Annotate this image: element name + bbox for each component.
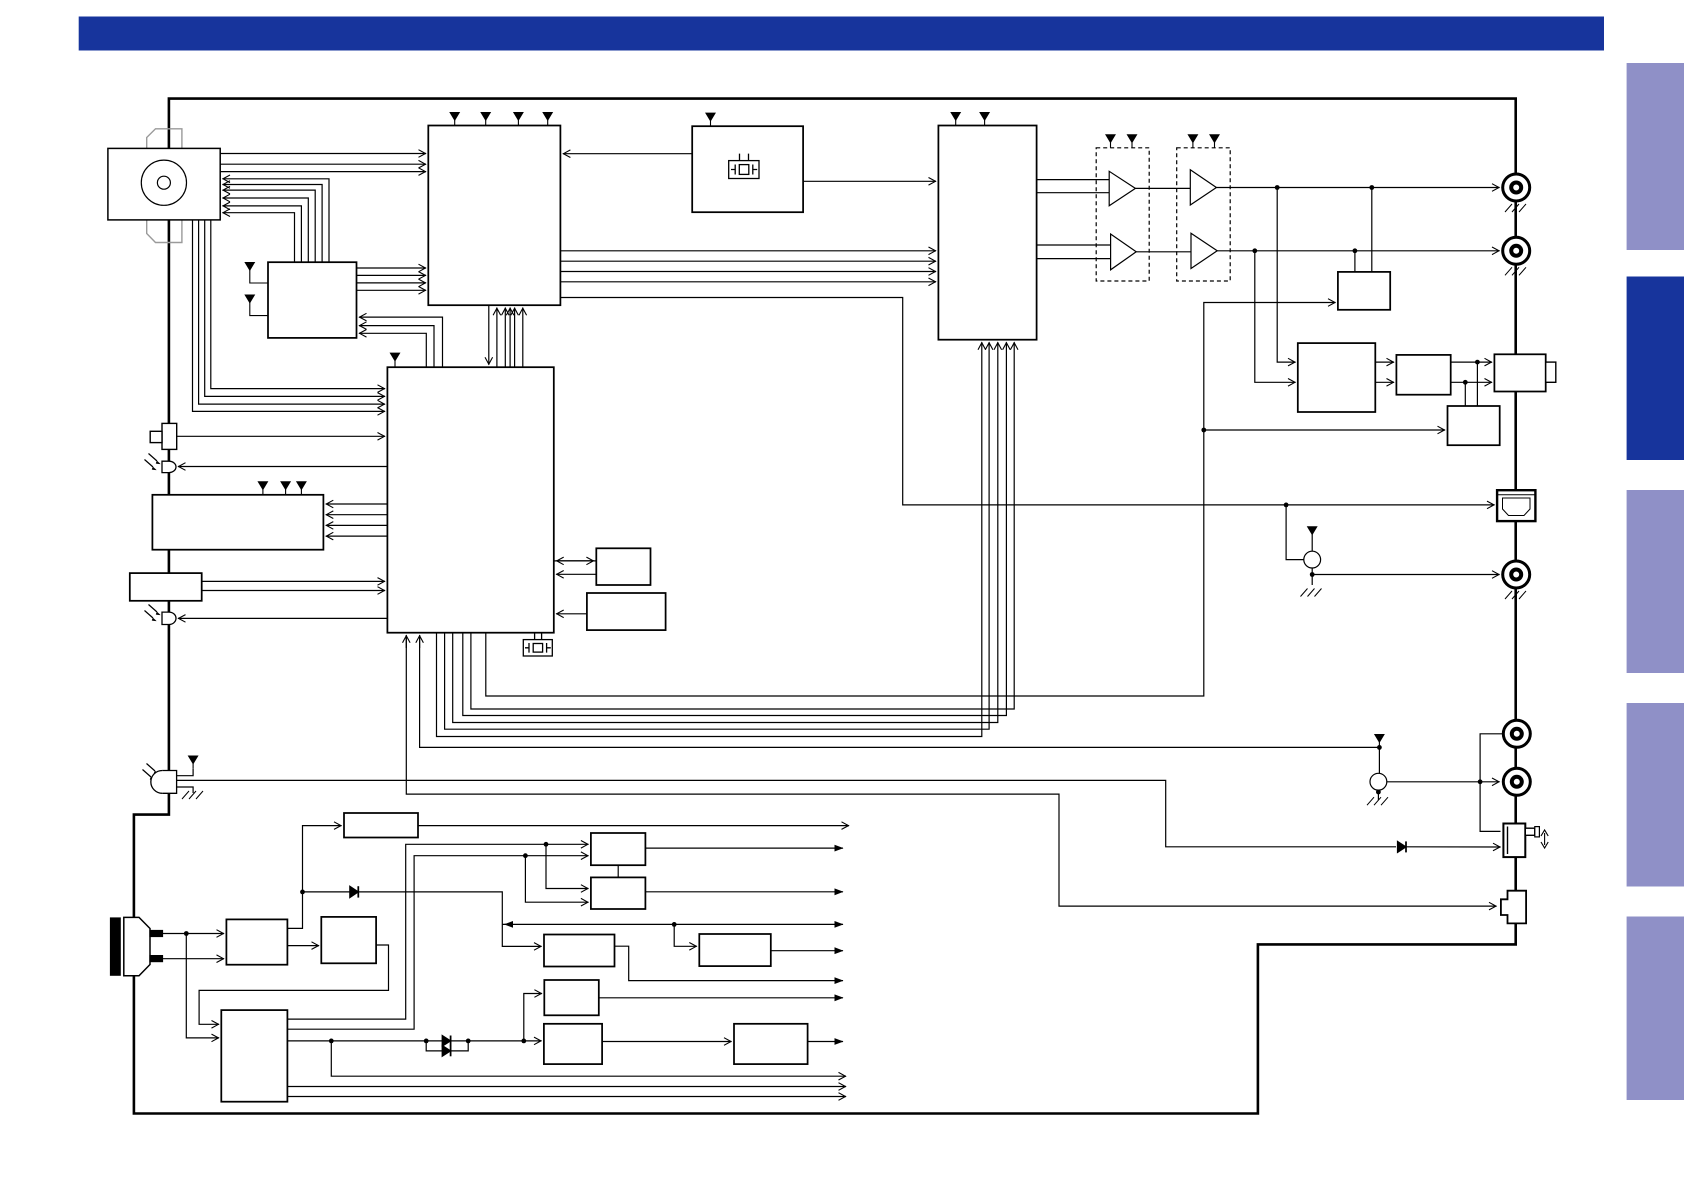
wire A2 to A4	[1136, 251, 1191, 253]
wire U5 to drum 2	[223, 185, 323, 263]
AC plug body	[124, 917, 150, 975]
wire P3 riser rail1	[287, 844, 588, 1019]
wire branch to block D	[1204, 429, 1445, 431]
head drum block	[108, 148, 220, 220]
ground hatch J3	[1505, 591, 1526, 599]
diode D1	[350, 886, 359, 897]
wire U1 to U2 1	[560, 250, 936, 252]
wire U5 to drum 1	[223, 179, 330, 262]
board outline	[134, 99, 1516, 1114]
wire U1-U4 bus 4	[509, 308, 511, 368]
wire supply to driver Q2	[1378, 747, 1380, 773]
Q2 emitter line	[1377, 790, 1379, 800]
block BH	[544, 935, 615, 967]
wire U3 to U2	[803, 180, 936, 182]
wire diode pair bypass	[426, 1041, 442, 1051]
wire rail branch to BG	[674, 924, 697, 946]
diode D2b	[442, 1046, 450, 1057]
supply arrow IR	[189, 756, 198, 764]
wire drum motor to U4 1	[193, 220, 386, 412]
wire U4 to photo sensor 1	[178, 466, 387, 468]
wire block A to B 1	[1375, 361, 1394, 363]
wire mic to U4 2	[202, 590, 385, 592]
memory block K1	[596, 548, 650, 585]
wire U4-U2 bus 5	[471, 342, 1014, 709]
block BM1	[591, 833, 646, 865]
wire U4 out to audio driver supply	[420, 635, 1380, 747]
power block P2	[321, 917, 376, 963]
wire U4 to display 2	[326, 514, 388, 516]
wire rail1 branch to BM2	[546, 844, 588, 888]
wire regulator out	[418, 825, 849, 827]
IR supply stub	[177, 769, 194, 776]
wire BM1-BM2 link	[617, 865, 619, 877]
photo sensor PS2	[162, 612, 176, 624]
reset block K2	[587, 593, 666, 630]
wire BH out	[615, 946, 844, 980]
wire U1-U4 bus 2	[496, 308, 498, 368]
wire drum to U1 head 2	[220, 163, 426, 165]
wire rail arrowhead left	[505, 923, 513, 925]
photo sensor PS1	[162, 461, 176, 472]
block BI	[544, 980, 599, 1015]
side tab 5	[1627, 917, 1684, 1101]
wire BM2 out	[645, 891, 843, 893]
supply arrow U1-3	[514, 113, 523, 121]
wire after diode down	[357, 892, 542, 947]
wire BF out	[808, 1041, 843, 1043]
power block P1	[226, 919, 287, 964]
wire audio L to block M	[1371, 188, 1373, 272]
block BG	[699, 934, 771, 966]
drum inner circle	[157, 176, 170, 189]
buffer amp A1	[1109, 171, 1135, 206]
wire U1 to U2 3	[560, 271, 936, 273]
audio block A	[1298, 343, 1376, 412]
wire block B to C 1	[1451, 361, 1492, 363]
wire block B to C 2	[1451, 381, 1492, 383]
Q1 emitter line	[1311, 568, 1313, 585]
syscon/servo IC U4	[387, 367, 553, 633]
mic/jack block	[130, 573, 202, 601]
wire U2 audio out 1b	[1037, 192, 1110, 194]
wire IR sensor line	[177, 780, 1396, 846]
wire unreg rail right	[502, 923, 843, 925]
wire audio R to block M	[1354, 251, 1356, 272]
wire U1-U4 bus 5	[514, 308, 516, 368]
block BM2	[591, 877, 646, 909]
wire U5 to drum 6	[223, 213, 295, 263]
wire audio R to block A in2	[1255, 251, 1296, 382]
wire U1 to U2 4	[560, 281, 936, 283]
buffer amp A4	[1191, 233, 1217, 268]
wire U1-U4 bus 3	[504, 308, 506, 368]
wire BI out	[599, 997, 843, 999]
cassette switch	[150, 423, 177, 449]
wire P3 diode pair line	[287, 1040, 442, 1042]
wire Q1 to video jack J3	[1312, 574, 1499, 576]
dashed buffer box 1	[1096, 148, 1149, 281]
audio driver Q2	[1370, 773, 1387, 790]
supply arrow display 3	[297, 482, 306, 490]
side tab 4	[1627, 703, 1684, 887]
wire U5 to drum 3	[223, 190, 316, 262]
wire U4-U2 bus 4	[463, 342, 1007, 715]
supply arrow display 1	[258, 482, 267, 490]
wire BE to BF	[602, 1041, 731, 1043]
block D	[1448, 406, 1500, 445]
drum bracket (grey)	[147, 129, 182, 243]
wire U2 audio out 1a	[1037, 179, 1110, 181]
wire P3 out bus2	[287, 1086, 846, 1088]
wire drum motor to U4 2	[199, 220, 385, 404]
S-video connector	[1497, 490, 1535, 521]
block B	[1396, 355, 1450, 395]
wire cassette switch to U4	[177, 435, 385, 437]
wire U5 to drum 4	[223, 198, 309, 262]
buffer amp A3	[1190, 170, 1216, 205]
audio/video IC U2	[938, 126, 1036, 340]
jack J5	[1503, 768, 1530, 795]
drum circle	[141, 160, 186, 205]
wire drum to U1 head 1	[220, 153, 426, 155]
wire U4-U2 bus 1	[437, 342, 982, 736]
IR ground stub	[177, 787, 194, 793]
wire diode pair bypass return	[451, 1041, 469, 1051]
video out jack J3	[1503, 561, 1530, 588]
supply arrow audio driver	[1375, 735, 1384, 743]
audio out jack J1	[1503, 174, 1530, 201]
lightning IR	[143, 764, 156, 778]
wire drum to U1 head 3	[220, 171, 426, 173]
wire U4-K1 bidir arrow right	[554, 560, 594, 562]
wire mic to U4 1	[202, 580, 385, 582]
supply arrow U2-1	[951, 113, 960, 121]
block C on edge	[1494, 354, 1545, 391]
wire U1 video out to S-video	[560, 298, 1494, 505]
block C tab	[1546, 362, 1556, 382]
AC plug prong 1	[150, 931, 163, 937]
wire diode pair to BE	[451, 1040, 542, 1042]
wire bracket J4/RF	[1480, 734, 1503, 832]
ground hatch J1	[1505, 204, 1526, 212]
supply arrow U4	[391, 353, 400, 361]
supply arrow Q1	[1308, 527, 1317, 551]
wire U1-U4 bus 6	[522, 308, 524, 368]
side tab 1	[1627, 63, 1684, 250]
IR LED sensor	[151, 771, 177, 794]
wire drum motor to U4 4	[211, 220, 385, 389]
wire U4 to display 4	[326, 535, 388, 537]
wire K2 to U4	[556, 613, 587, 615]
audio out jack J2	[1503, 237, 1530, 264]
wire Q2 to audio jack J5	[1387, 781, 1500, 783]
AC plug black bar	[111, 918, 121, 975]
wire P3 out bus3	[287, 1096, 846, 1098]
crystal X1 symbol	[729, 154, 759, 179]
wire block A to B 2	[1375, 381, 1394, 383]
wire P2 loop to P3	[199, 945, 388, 1024]
lightning PS2	[145, 605, 158, 619]
wire U4 arrow up 2	[419, 635, 421, 648]
wire branch up to BI	[524, 994, 542, 1041]
video driver Q1	[1304, 551, 1321, 568]
wire U4 to display 1	[326, 503, 388, 505]
diode D3	[1398, 841, 1407, 852]
wire P1 to P2	[287, 945, 319, 947]
supply arrow U3	[706, 113, 715, 121]
wire U4 to U5 3	[359, 317, 443, 367]
wire BM1 out	[645, 847, 843, 849]
wire U3 to U1	[563, 153, 692, 155]
block M	[1338, 272, 1390, 310]
supply arrow display 2	[281, 482, 290, 490]
buffer amp A2	[1111, 234, 1137, 270]
wire U2 audio out 2a	[1037, 244, 1111, 246]
supply arrow U5-1	[245, 263, 254, 271]
wire AC line 2	[163, 958, 225, 960]
power block P3	[221, 1010, 287, 1102]
block BF	[734, 1024, 808, 1064]
AC plug prong 2	[150, 956, 163, 962]
wire P3 branch bus1	[331, 1041, 846, 1076]
wire U4-U2 bus 2	[445, 342, 990, 729]
wire drum motor to U4 3	[205, 220, 385, 397]
wire U5 to U1 1	[357, 267, 427, 269]
wire U5 to U1 2	[357, 274, 427, 276]
supply arrow buffer box2 b	[1210, 135, 1219, 143]
wire U2 audio out 2b	[1037, 258, 1111, 260]
supply arrow buffer box1 a	[1106, 135, 1115, 143]
supply arrow U1-2	[481, 113, 490, 121]
wire U4 to U5 1	[359, 333, 426, 367]
wire AC branch to P3	[186, 934, 219, 1038]
ground hatch Q1	[1301, 589, 1322, 597]
wire P1 to regulator	[287, 826, 341, 929]
header bar	[79, 17, 1604, 51]
supply arrow buffer box1 b	[1128, 135, 1137, 143]
RF up-down arrow	[1544, 833, 1546, 845]
oscillator block U3	[692, 126, 803, 212]
wire U4 to photo sensor 2	[178, 617, 387, 619]
wire unreg diode line	[303, 891, 350, 893]
wire video junction to driver Q1	[1286, 505, 1304, 560]
display/timer block	[152, 495, 323, 550]
wire U5 to drum 5	[223, 206, 302, 262]
wire U4-U2 bus 3	[453, 342, 998, 722]
supply arrow buffer box2 a	[1188, 135, 1197, 143]
wire U4 arrow up 1	[405, 635, 407, 648]
crystal X2 below syscon	[523, 633, 552, 656]
wire U4 to display 3	[326, 524, 388, 526]
supply arrow U2-2	[980, 113, 989, 121]
ground hatch J2	[1505, 267, 1526, 275]
head amp block U5	[268, 262, 357, 338]
wire K1 to U4	[556, 573, 596, 575]
wire U5 to U1 3	[357, 282, 427, 284]
wire long syscon line	[486, 303, 1336, 697]
side tab 2 (selected)	[1627, 277, 1684, 461]
dashed buffer box 2	[1177, 148, 1231, 281]
supply arrow U5-2	[245, 295, 254, 303]
supply arrow U1-1	[450, 113, 459, 121]
RF modulator	[1503, 824, 1539, 858]
wire A4 to audio jack J2	[1217, 250, 1499, 252]
side tab 3	[1627, 490, 1684, 673]
wire U4 to U5 2	[359, 326, 434, 368]
wire diode to RF modulator	[1406, 846, 1501, 848]
wire junction to D top 2	[1464, 382, 1466, 406]
wire P3 riser rail2	[287, 856, 588, 1029]
diode D2a	[442, 1036, 450, 1047]
wire A1 to A3	[1135, 187, 1190, 189]
lightning PS1	[145, 454, 158, 468]
wire junction to D top 1	[1476, 362, 1478, 406]
regulator block	[344, 813, 418, 838]
video process IC U1	[428, 126, 560, 306]
wire U4 out to antenna switch	[406, 635, 1496, 906]
antenna connector	[1501, 891, 1526, 924]
wire audio L to block A in1	[1277, 188, 1295, 363]
ground hatch Q2	[1367, 797, 1388, 805]
block BE	[544, 1024, 602, 1064]
wire U1-U4 bus 1	[488, 305, 490, 365]
wire rail2 branch to BM2	[525, 856, 588, 903]
wire AC line 1	[163, 933, 225, 935]
wire BG out	[771, 950, 843, 952]
supply arrow U1-4	[543, 113, 552, 121]
wire U5 to U1 4	[357, 289, 427, 291]
wire U1 to U2 2	[560, 260, 936, 262]
wire U4-K1 bidir	[556, 560, 596, 562]
junction dots	[184, 931, 189, 936]
ground hatch IR	[182, 791, 203, 799]
wire A3 to audio jack J1	[1216, 187, 1499, 189]
jack J4	[1503, 720, 1530, 747]
